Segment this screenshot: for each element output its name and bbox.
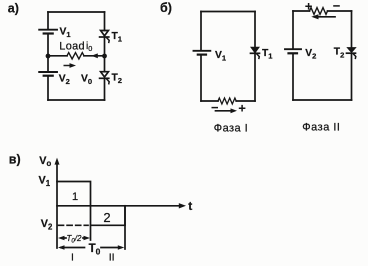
svg-text:1: 1 bbox=[72, 191, 78, 203]
svg-text:II: II bbox=[109, 251, 115, 263]
svg-text:Load: Load bbox=[59, 41, 85, 53]
svg-text:в): в) bbox=[9, 153, 21, 167]
svg-text:I: I bbox=[71, 251, 74, 263]
svg-text:2: 2 bbox=[103, 210, 110, 225]
svg-text:а): а) bbox=[8, 1, 19, 15]
svg-text:б): б) bbox=[160, 1, 172, 15]
svg-text:Фаза I: Фаза I bbox=[214, 123, 248, 135]
svg-text:t: t bbox=[188, 199, 192, 213]
svg-text:Фаза II: Фаза II bbox=[302, 122, 340, 134]
